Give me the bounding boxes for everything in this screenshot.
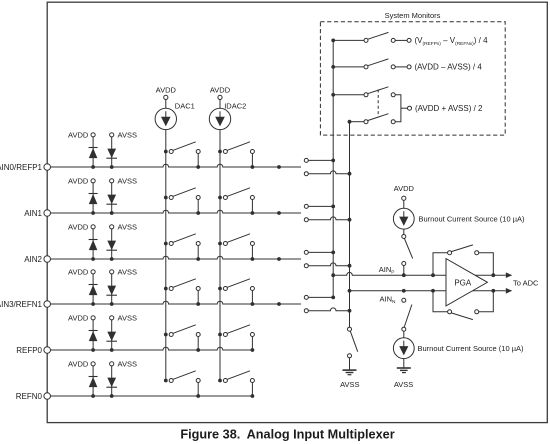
svg-text:PGA: PGA [454,278,472,287]
svg-text:AVDD: AVDD [156,86,177,95]
svg-text:Figure 38. Analog Input Multip: Figure 38. Analog Input Multiplexer [180,428,394,442]
svg-text:AVSS: AVSS [394,380,413,389]
svg-text:AVSS: AVSS [118,176,137,185]
svg-text:AVDD: AVDD [68,176,89,185]
svg-text:Burnout Current Source (10 µA): Burnout Current Source (10 µA) [418,344,525,353]
svg-text:AVDD: AVDD [68,359,89,368]
svg-text:AVDD: AVDD [210,86,231,95]
svg-text:AVDD: AVDD [68,313,89,322]
svg-text:AVDD: AVDD [394,184,415,193]
svg-text:To ADC: To ADC [513,278,539,287]
svg-text:AVDD: AVDD [68,130,89,139]
svg-text:REFN0: REFN0 [16,392,43,401]
svg-text:DAC1: DAC1 [175,102,195,111]
svg-text:AIN1: AIN1 [24,209,42,218]
svg-text:REFP0: REFP0 [16,346,42,355]
svg-text:System Monitors: System Monitors [385,11,441,20]
svg-text:(AVDD – AVSS) / 4: (AVDD – AVSS) / 4 [415,63,483,72]
svg-text:AVDD: AVDD [68,267,89,276]
svg-text:AVSS: AVSS [118,130,137,139]
svg-text:AIN2: AIN2 [24,255,42,264]
svg-text:AIN3/REFN1: AIN3/REFN1 [0,300,43,309]
svg-text:AVSS: AVSS [118,222,137,231]
svg-text:IDAC2: IDAC2 [224,102,246,111]
svg-text:AVDD: AVDD [68,222,89,231]
svg-text:AVSS: AVSS [340,380,359,389]
svg-text:AIN0/REFP1: AIN0/REFP1 [0,163,43,172]
svg-text:AVSS: AVSS [118,313,137,322]
svg-text:Burnout Current Source (10 µA): Burnout Current Source (10 µA) [419,215,526,224]
svg-text:(AVDD + AVSS) / 2: (AVDD + AVSS) / 2 [415,104,483,113]
svg-text:AVSS: AVSS [118,359,137,368]
svg-text:AVSS: AVSS [118,267,137,276]
